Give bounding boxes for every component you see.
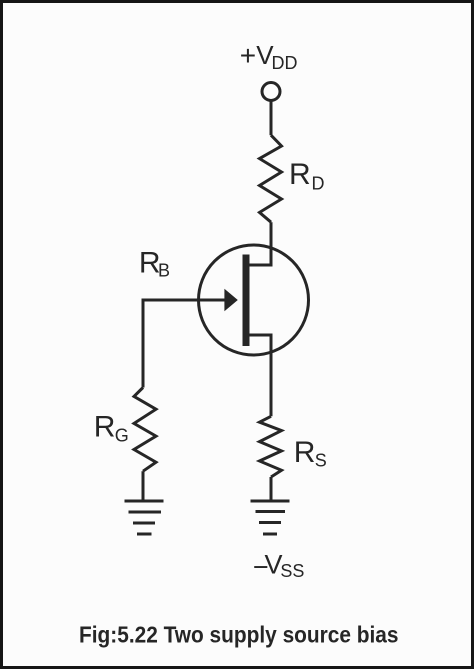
svg-text:Fig:5.22 Two supply source bia: Fig:5.22 Two supply source bias — [79, 621, 399, 647]
svg-text:+: + — [240, 40, 256, 71]
svg-text:DD: DD — [272, 53, 298, 73]
svg-text:R: R — [294, 436, 316, 469]
svg-text:G: G — [115, 426, 129, 446]
svg-text:B: B — [158, 260, 170, 280]
svg-text:SS: SS — [280, 561, 304, 581]
svg-text:S: S — [315, 450, 327, 470]
svg-text:D: D — [312, 174, 325, 194]
svg-text:R: R — [289, 158, 311, 191]
svg-text:R: R — [94, 411, 116, 444]
